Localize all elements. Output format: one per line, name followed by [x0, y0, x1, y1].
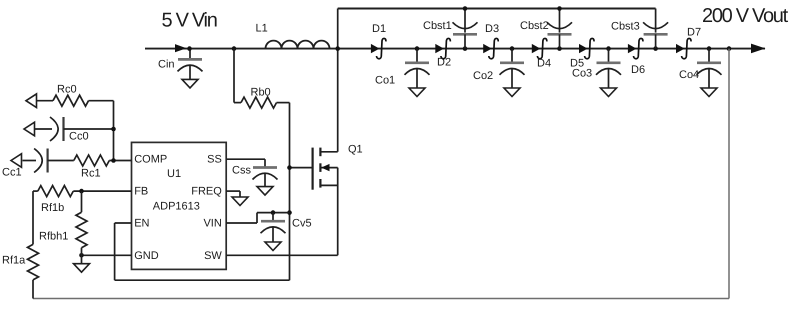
svg-text:Cv5: Cv5	[292, 218, 312, 230]
off-page arrow (Cc1)	[11, 154, 22, 168]
capacitor Css	[264, 159, 266, 167]
svg-text:Cbst2: Cbst2	[520, 20, 549, 32]
svg-text:D3: D3	[485, 23, 499, 35]
op-amp U1 ADP1613 (boost regulator IC)	[132, 142, 227, 269]
wire: switch node vertical (top rail to Q1 drain)	[337, 9, 339, 152]
svg-text:Co1: Co1	[375, 75, 395, 87]
svg-text:Cbst3: Cbst3	[611, 21, 640, 33]
junction: feedback tap node	[727, 46, 732, 51]
resistor Rb0	[233, 49, 235, 103]
junction: Co3 node	[606, 46, 611, 51]
wire: top pump rail	[338, 8, 656, 10]
wire: GND pin to star ground	[82, 254, 132, 256]
wire: feedback bottom run	[33, 298, 729, 300]
junction: Cin tap	[187, 46, 192, 51]
transistor Q1 (N-MOSFET)	[290, 167, 313, 169]
off-page arrow (Rc0)	[26, 94, 37, 108]
junction: Cbst1 top rail node	[463, 6, 468, 11]
resistor Rfbh1	[81, 191, 83, 212]
resistor Rc1	[48, 160, 74, 162]
junction: Q1 gate node	[287, 165, 292, 170]
svg-text:Co4: Co4	[679, 69, 699, 81]
svg-text:Cin: Cin	[158, 59, 175, 71]
inductor L1	[266, 41, 330, 49]
svg-text:Q1: Q1	[348, 144, 363, 156]
diode D6	[628, 44, 637, 53]
wire: 5 V input / multiplier main rail	[145, 48, 765, 50]
junction: Cbst1 bottom node	[463, 46, 468, 51]
junction: Co2 node	[510, 46, 515, 51]
svg-text:Rfbh1: Rfbh1	[39, 231, 68, 243]
svg-text:Co3: Co3	[572, 68, 592, 80]
capacitor Cv5	[272, 213, 274, 222]
svg-text:Rc1: Rc1	[81, 168, 101, 180]
junction: VIN node	[287, 210, 292, 215]
svg-text:D4: D4	[537, 58, 551, 70]
capacitor Co2	[511, 49, 513, 63]
junction: Cv5 top	[271, 210, 276, 215]
svg-text:Cbst1: Cbst1	[423, 20, 452, 32]
capacitor Co1	[416, 49, 418, 63]
svg-text:D6: D6	[631, 64, 645, 76]
junction: Co4 node	[707, 46, 712, 51]
resistor Rc0	[37, 100, 54, 102]
junction: ground node	[79, 253, 84, 258]
wire: SW pin to Q1 source	[226, 254, 338, 256]
capacitor Co4	[708, 49, 710, 63]
capacitor Cbst2	[559, 9, 561, 33]
svg-text:5 V Vin: 5 V Vin	[162, 9, 217, 31]
diode D1	[371, 44, 380, 53]
wire: Rb0 to Q1 gate / VIN / EN vertical	[289, 103, 291, 281]
svg-text:U1: U1	[167, 168, 181, 180]
svg-text:Rb0: Rb0	[251, 86, 271, 98]
svg-text:Cc0: Cc0	[69, 131, 89, 143]
off-page arrow (Cc0)	[24, 122, 35, 136]
wire: feedback from Vout (right vertical)	[728, 49, 730, 299]
svg-text:SS: SS	[207, 154, 222, 166]
svg-text:Css: Css	[232, 164, 251, 176]
svg-text:D1: D1	[372, 23, 386, 35]
capacitor Cc0	[35, 128, 53, 130]
svg-text:Rf1b: Rf1b	[41, 202, 64, 214]
svg-text:Rc0: Rc0	[57, 84, 77, 96]
junction: COMP node	[111, 158, 116, 163]
ground (GND pin)	[81, 255, 83, 263]
svg-text:VIN: VIN	[203, 217, 221, 229]
svg-text:ADP1613: ADP1613	[153, 201, 200, 213]
wire: VIN pin to Cv5 node	[226, 222, 257, 224]
svg-text:SW: SW	[204, 250, 222, 262]
capacitor Cbst1	[464, 9, 466, 33]
svg-text:D2: D2	[437, 57, 451, 69]
resistor Rf1b	[33, 190, 38, 192]
diode D3	[483, 44, 492, 53]
junction: FB node	[79, 189, 84, 194]
capacitor Cc1	[23, 160, 37, 162]
wire: comp network vertical	[113, 101, 115, 161]
junction: Rb0 tap	[232, 46, 237, 51]
svg-text:EN: EN	[134, 217, 149, 229]
svg-text:L1: L1	[256, 23, 268, 35]
svg-text:FREQ: FREQ	[191, 186, 222, 198]
wire: FREQ pin to ground	[226, 190, 240, 192]
diode D7	[676, 44, 685, 53]
capacitor Cbst3	[655, 9, 657, 33]
ground (FREQ)	[232, 197, 248, 206]
output flow arrow (200 V Vout)	[751, 44, 766, 54]
svg-text:COMP: COMP	[134, 154, 167, 166]
svg-text:Rf1a: Rf1a	[2, 255, 26, 267]
resistor Rf1a	[32, 191, 34, 244]
capacitor Cin	[189, 49, 191, 60]
wire: Q1 source to SW	[337, 168, 339, 256]
junction: Co1 node	[415, 46, 420, 51]
diode D2	[435, 44, 444, 53]
junction: Cbst2 bottom node	[557, 46, 562, 51]
svg-text:Cc1: Cc1	[2, 167, 22, 179]
junction: Cbst2 top rail node	[557, 6, 562, 11]
diode D4	[532, 44, 541, 53]
input flow arrow (5 V Vin)	[175, 44, 187, 52]
svg-text:200 V Vout: 200 V Vout	[702, 5, 789, 27]
svg-text:FB: FB	[134, 186, 148, 198]
svg-text:GND: GND	[134, 250, 159, 262]
junction: switch node on main rail	[335, 46, 340, 51]
svg-text:D7: D7	[687, 27, 701, 39]
diode D5	[579, 44, 588, 53]
wire: SS pin to Css	[226, 158, 265, 160]
junction: Cc0 node	[111, 127, 116, 132]
wire: EN return route	[115, 279, 290, 281]
svg-text:Co2: Co2	[473, 70, 493, 82]
junction: Cbst3 bottom node	[653, 46, 658, 51]
capacitor Co3	[608, 49, 610, 63]
